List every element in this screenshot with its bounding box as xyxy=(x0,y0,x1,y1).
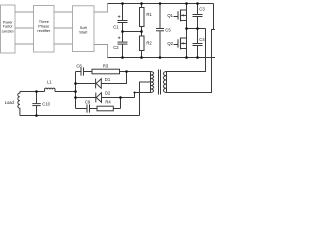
resistor R1 xyxy=(140,4,153,32)
transformer primary winding xyxy=(163,72,166,93)
svg-text:correction: correction xyxy=(2,29,14,33)
junction dot C10 top xyxy=(35,90,38,93)
svg-text:C4: C4 xyxy=(199,37,205,42)
transformer core xyxy=(159,70,161,95)
wire rectifier out 1 to soft start xyxy=(54,11,73,13)
wire rectifier cathode bus xyxy=(75,72,77,109)
wire half-bridge midpoint rail xyxy=(187,28,206,30)
junction dot C10 bottom xyxy=(35,114,38,117)
wire rectifier out 2 to soft start xyxy=(54,27,73,29)
svg-text:C3: C3 xyxy=(199,7,205,12)
svg-text:R1: R1 xyxy=(146,12,152,17)
resistor R2 xyxy=(140,32,153,58)
wire secondary top down to D1 anode xyxy=(101,72,126,84)
junction dots bottom rail xyxy=(121,56,199,59)
junction dots top rail xyxy=(121,2,199,5)
wire secondary bottom lead down to D2 xyxy=(135,93,151,98)
transistor Q1 xyxy=(167,4,186,29)
junction dot snubber2 to D2 row xyxy=(119,96,122,99)
wire soft start positive out to top rail xyxy=(94,4,108,13)
block Soft Start xyxy=(73,6,95,52)
resistor R4 xyxy=(90,98,121,111)
junction dot output row xyxy=(74,90,77,93)
capacitor C4 xyxy=(193,29,206,58)
load xyxy=(5,92,20,116)
capacitor C9 xyxy=(76,99,91,112)
wire midpoint stub to image edge xyxy=(212,29,216,31)
svg-text:rectifier: rectifier xyxy=(37,28,50,33)
wire center tap to output bottom rail xyxy=(140,82,151,116)
transistor Q2 xyxy=(167,29,186,58)
wire phase B block1 to block2 xyxy=(15,27,34,29)
svg-text:D2: D2 xyxy=(105,90,111,95)
wire bottom rail xyxy=(108,57,216,59)
capacitor C5 xyxy=(156,4,171,58)
wire phase C block1 to block2 xyxy=(15,43,34,45)
transformer secondary winding (center tapped) xyxy=(151,72,154,93)
wire rectifier out 3 to soft start xyxy=(54,43,73,45)
wire top rail down right edge to primary bottom xyxy=(167,4,214,93)
junction dot D1 cathode xyxy=(74,82,77,85)
diode D1 xyxy=(76,77,111,89)
svg-text:C5: C5 xyxy=(165,28,171,33)
capacitor C3 xyxy=(193,4,206,29)
wire phase A block1 to block2 xyxy=(15,11,34,13)
svg-text:C8: C8 xyxy=(76,63,82,68)
svg-text:D1: D1 xyxy=(105,77,111,82)
svg-text:R2: R2 xyxy=(146,41,152,46)
capacitor C1 xyxy=(113,4,127,32)
wire top rail xyxy=(108,3,214,5)
wire L1 to C10 node xyxy=(20,91,45,93)
svg-text:C1: C1 xyxy=(113,25,119,30)
svg-text:Start: Start xyxy=(79,30,88,35)
wire midpoint rail down to primary top xyxy=(167,29,206,72)
wire output bottom rail xyxy=(20,115,140,117)
capacitor C8 xyxy=(76,63,93,75)
wire output row to L1 xyxy=(55,91,76,93)
capacitor C10 xyxy=(32,92,50,116)
junction dots capacitor midpoint xyxy=(121,30,143,33)
svg-text:R4: R4 xyxy=(105,99,111,104)
svg-text:C10: C10 xyxy=(42,101,50,106)
block Power Factor correction xyxy=(1,5,15,53)
svg-text:Q1: Q1 xyxy=(167,13,173,18)
block Three Phase rectifier xyxy=(34,6,55,53)
diode D2 xyxy=(76,90,135,102)
svg-text:C9: C9 xyxy=(85,99,91,104)
junction dot D2 cathode xyxy=(74,96,77,99)
svg-text:Q2: Q2 xyxy=(167,41,173,46)
svg-text:L1: L1 xyxy=(47,79,52,84)
wire C1 C2 midpoint to R1 R2 midpoint xyxy=(123,31,142,33)
resistor R3 xyxy=(92,63,127,73)
svg-text:Load: Load xyxy=(5,100,15,105)
wire secondary top lead xyxy=(127,71,151,73)
junction dots half-bridge midpoint xyxy=(185,27,199,30)
capacitor C2 xyxy=(113,32,127,58)
inductor L1 xyxy=(45,79,55,91)
junction dot secondary top xyxy=(125,70,128,73)
junction dot secondary bottom corner xyxy=(134,92,136,94)
svg-text:C2: C2 xyxy=(113,45,119,50)
wire soft start negative out to bottom rail xyxy=(94,45,108,58)
svg-text:R3: R3 xyxy=(103,63,109,68)
svg-text:Power: Power xyxy=(3,20,13,24)
svg-text:Factor: Factor xyxy=(3,25,13,29)
